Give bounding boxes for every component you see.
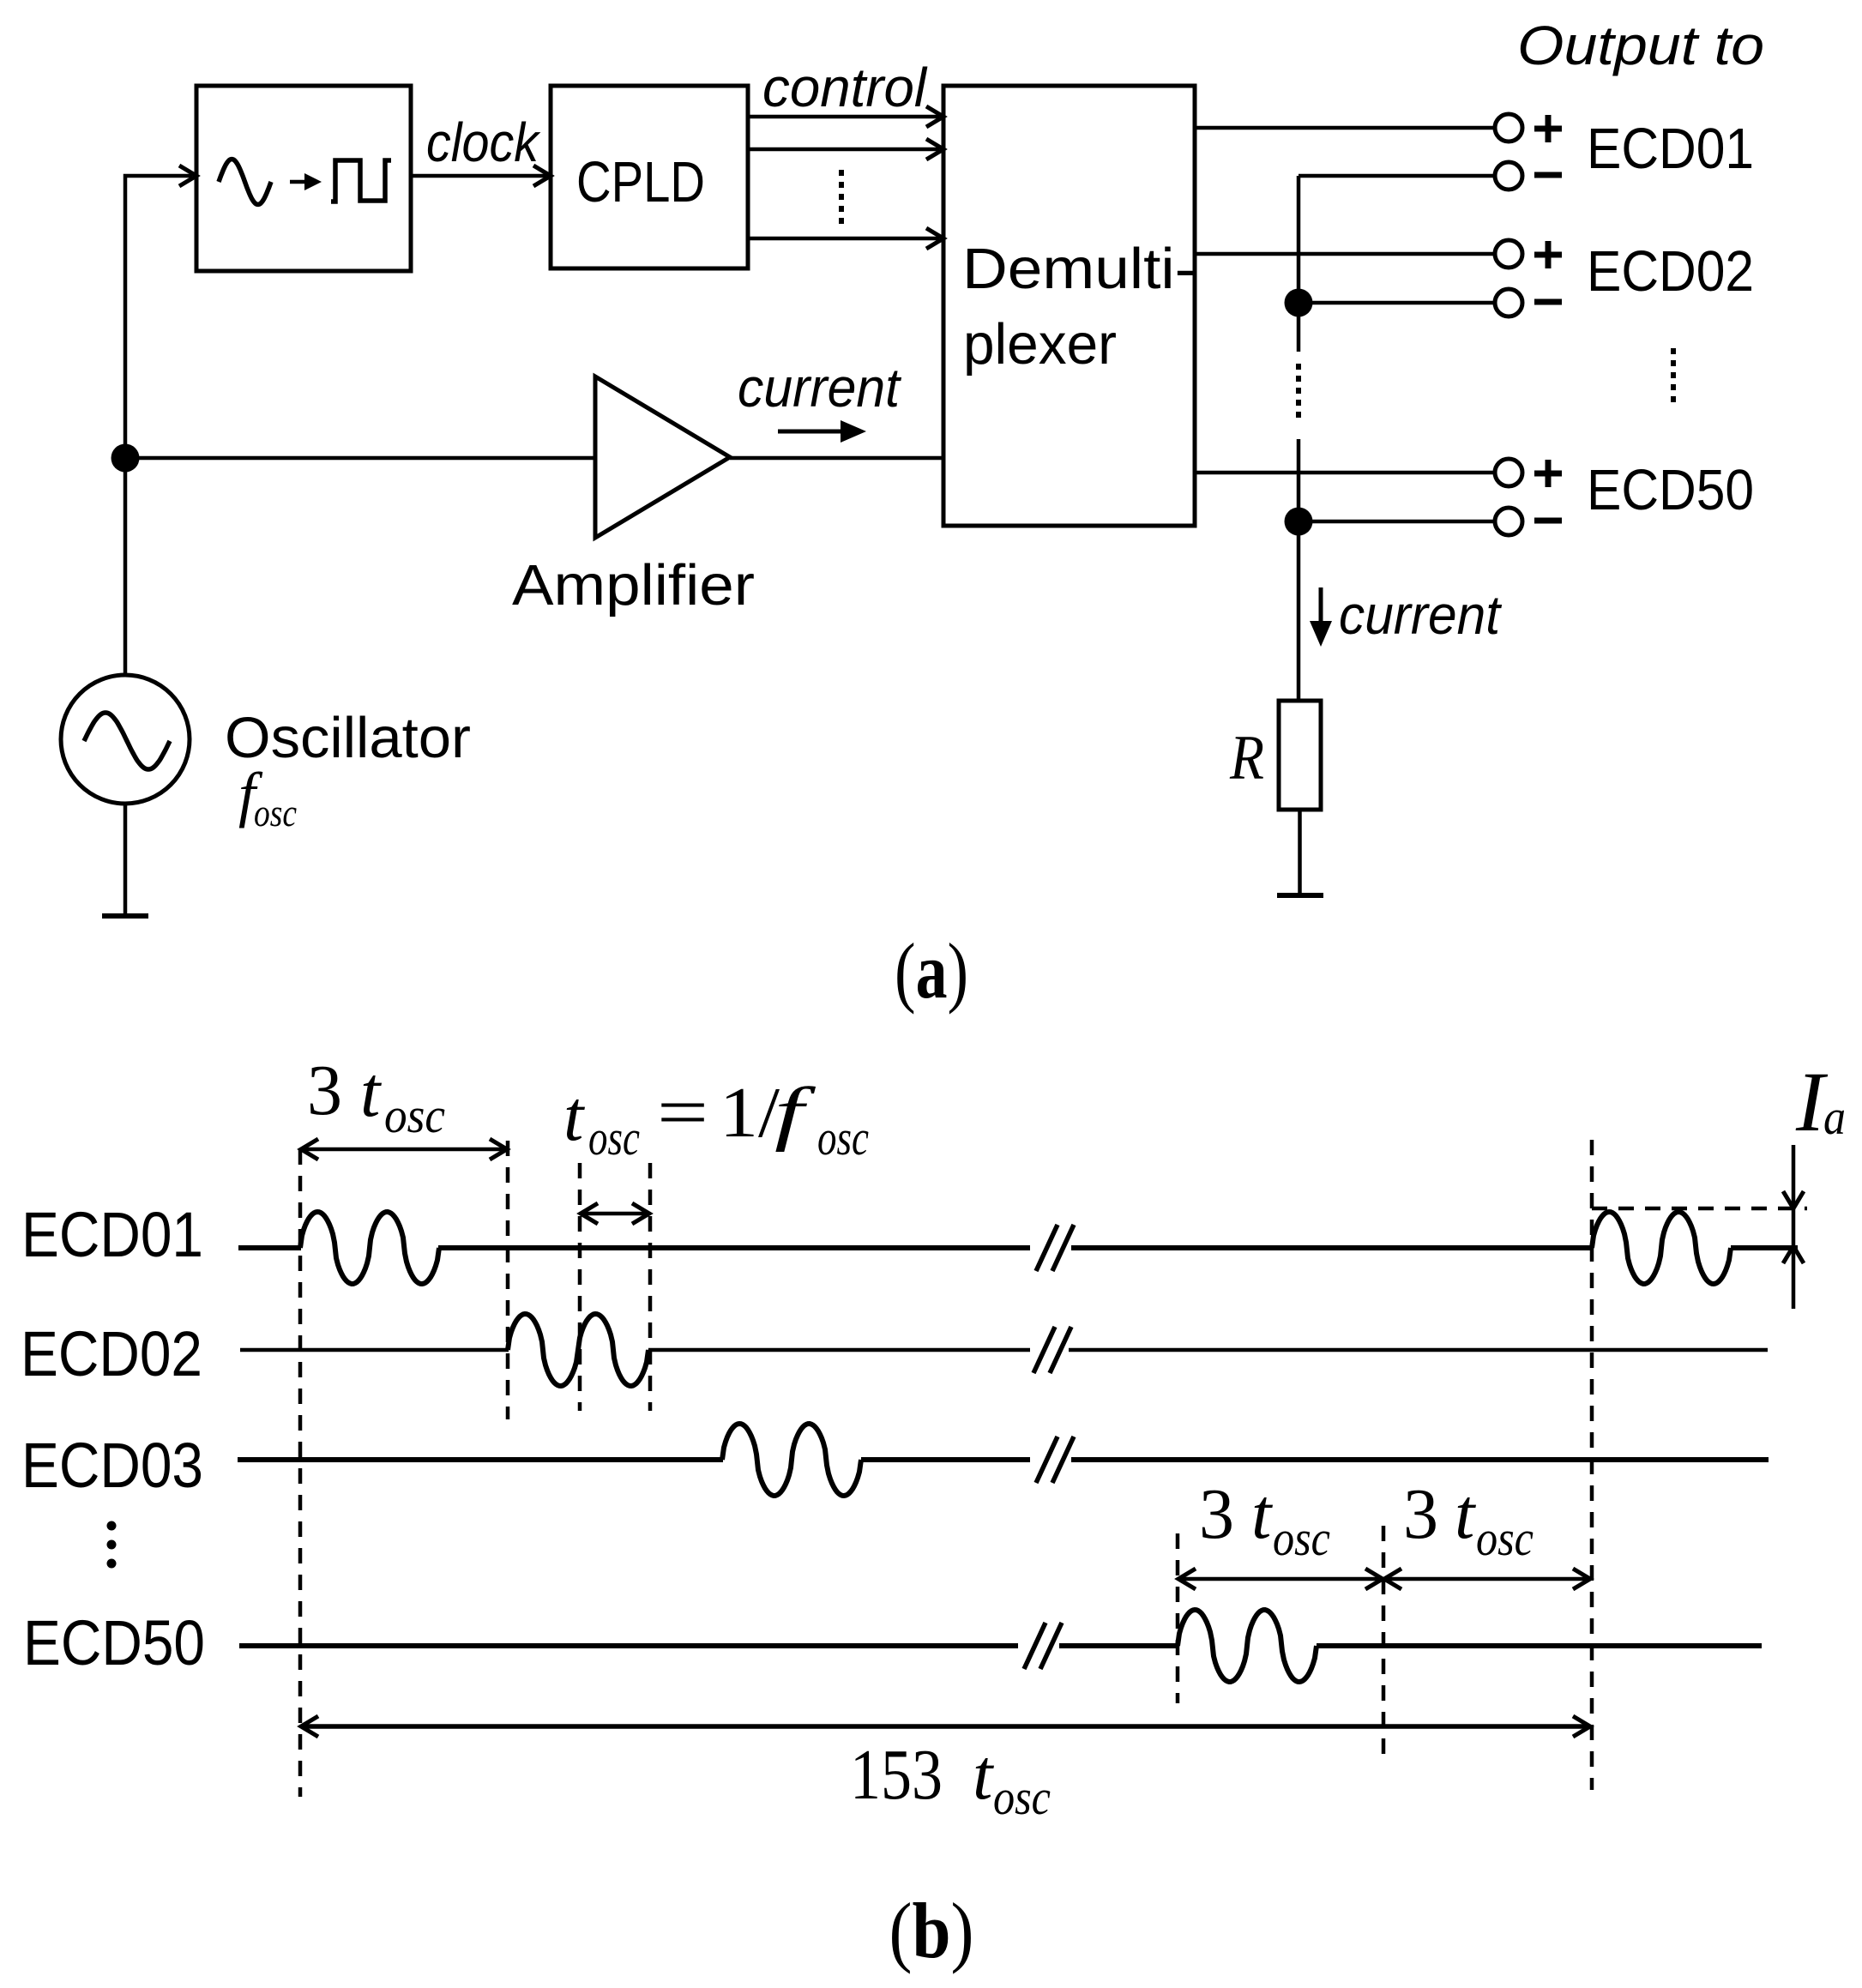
- trace ECD01 baseline (mid): [438, 1245, 1030, 1250]
- terminal circle ECD02 -: [1495, 289, 1522, 316]
- dashed amplitude level line (I_a): [1592, 1207, 1807, 1211]
- wire: clock (converter to CPLD): [411, 166, 551, 186]
- trace ECD03 baseline (left): [238, 1457, 723, 1462]
- break marks ECD50: [1024, 1623, 1062, 1669]
- terminal circle ECD01 -: [1495, 162, 1522, 190]
- trace ECD03 baseline (mid): [861, 1457, 1030, 1462]
- svg-text:1/: 1/: [720, 1073, 780, 1153]
- resistor R: [1279, 701, 1321, 810]
- trace ECD02 baseline (right): [1069, 1348, 1768, 1352]
- wire: node A to amplifier input: [125, 456, 595, 461]
- label CPLD: [576, 150, 705, 214]
- terminal circle ECD50 +: [1495, 459, 1522, 486]
- plus sign ECD02: [1534, 241, 1562, 268]
- terminal circle ECD02 +: [1495, 240, 1522, 268]
- trace ECD50 baseline (left): [239, 1643, 1018, 1648]
- label t_osc = 1/f_osc: [563, 1073, 869, 1166]
- svg-text:plexer: plexer: [963, 312, 1117, 377]
- svg-text:ECD02: ECD02: [21, 1318, 202, 1389]
- svg-text:osc: osc: [1273, 1510, 1330, 1566]
- plus sign ECD01: [1534, 115, 1562, 142]
- svg-text:t: t: [563, 1076, 586, 1156]
- dimension arrow I_a: [1783, 1145, 1804, 1309]
- label f_osc: [238, 760, 297, 834]
- svg-text:Output to: Output to: [1517, 15, 1764, 76]
- ground (below R): [1277, 893, 1323, 898]
- label 3 t_osc (top left): [307, 1051, 445, 1143]
- dotted ellipsis on common return: [1296, 364, 1301, 422]
- label plexer: [963, 312, 1117, 377]
- trace ECD01 baseline (right end): [1731, 1245, 1798, 1250]
- wire: ECD02 - output: [1299, 301, 1495, 305]
- arrow glyph in converter box: [290, 173, 322, 190]
- label ECD50 (schematic): [1587, 458, 1754, 522]
- break marks ECD02: [1033, 1327, 1071, 1373]
- svg-text:3: 3: [1199, 1474, 1234, 1554]
- label current (into R): [1339, 584, 1502, 646]
- dashed guide t-end (x=1856): [1590, 1140, 1594, 1790]
- svg-text:(a): (a): [895, 927, 968, 1015]
- ground (below oscillator): [102, 913, 148, 919]
- wire: ECD02 + output: [1195, 252, 1495, 256]
- trace ECD02 baseline (left): [240, 1348, 509, 1352]
- label clock: [426, 111, 541, 173]
- trace ECD03 sine burst: [722, 1424, 861, 1496]
- wire: common return vertical (upper): [1297, 176, 1301, 352]
- wire: control bus line 1: [748, 106, 943, 127]
- square-wave glyph in converter box: [331, 160, 391, 202]
- node A junction dot (oscillator/amplifier tap): [111, 444, 140, 473]
- terminal circle ECD01 +: [1495, 114, 1522, 142]
- caption (b): [889, 1887, 974, 1974]
- trace ECD50 baseline (mid): [1059, 1643, 1178, 1648]
- break marks ECD03: [1036, 1437, 1074, 1483]
- svg-text:Demulti-: Demulti-: [962, 237, 1196, 301]
- svg-text:osc: osc: [1476, 1510, 1534, 1566]
- trace ECD50 baseline (right): [1317, 1643, 1762, 1648]
- minus sign ECD50: [1534, 518, 1562, 524]
- svg-text:=: =: [657, 1073, 708, 1153]
- trace ECD01 sine burst (left): [300, 1212, 439, 1284]
- label ECD01 (schematic): [1587, 117, 1754, 181]
- trace ECD01 baseline (mid-right): [1071, 1245, 1593, 1250]
- label 3 t_osc (right 2): [1403, 1474, 1534, 1566]
- arrow: current direction (amplifier output): [778, 420, 866, 443]
- svg-text:t: t: [360, 1052, 383, 1132]
- svg-text:Amplifier: Amplifier: [512, 553, 755, 617]
- dimension arrow t_osc: [581, 1203, 649, 1224]
- wire: common return vertical (lower): [1297, 439, 1301, 701]
- dotted ellipsis (outputs, right): [1671, 348, 1676, 405]
- arrow: current into R: [1310, 587, 1332, 647]
- label R: [1229, 723, 1264, 793]
- label Oscillator: [225, 706, 471, 770]
- svg-text:osc: osc: [384, 1087, 445, 1143]
- label I_a: [1795, 1054, 1846, 1149]
- amplifier U1 (triangle): [595, 377, 730, 538]
- wire: amplifier output to demultiplexer: [730, 456, 943, 461]
- oscillator source (circle + sine): [61, 675, 190, 804]
- trace ECD01 sine burst (right): [1592, 1212, 1731, 1284]
- label Amplifier: [512, 553, 755, 617]
- dashed guide t1 (x=592): [506, 1141, 510, 1419]
- label Output to: [1517, 15, 1764, 76]
- dashed guide ECD50 burst start (x=1373): [1176, 1533, 1180, 1703]
- dashed guide t0 (x=350): [298, 1149, 303, 1797]
- svg-text:ECD50: ECD50: [1587, 458, 1754, 522]
- wire: resistor R to ground: [1298, 810, 1302, 895]
- svg-text:current: current: [1339, 584, 1502, 646]
- label ECD02 (schematic): [1587, 239, 1754, 304]
- dashed guide t3 (x=758): [648, 1163, 653, 1411]
- dashed guide t2 (x=676): [578, 1163, 582, 1411]
- minus sign ECD02: [1534, 299, 1562, 305]
- dimension arrow 3 t_osc (right 1): [1178, 1569, 1383, 1589]
- minus sign ECD01: [1534, 172, 1562, 178]
- converter box (sine-to-square): [196, 86, 411, 271]
- trace ECD02 baseline (mid): [648, 1348, 1030, 1352]
- wire: control bus line n: [748, 228, 943, 249]
- wire: ECD01 - output: [1299, 174, 1495, 178]
- wire: ECD50 + output: [1195, 471, 1495, 475]
- CPLD box: [551, 86, 748, 268]
- svg-text:3: 3: [1403, 1474, 1438, 1554]
- label current (amplifier output): [738, 357, 901, 419]
- svg-text:ECD02: ECD02: [1587, 239, 1754, 304]
- svg-text:current: current: [738, 357, 901, 419]
- svg-text:osc: osc: [817, 1110, 869, 1166]
- label ECD01 (timing): [21, 1199, 203, 1270]
- svg-text:osc: osc: [588, 1110, 640, 1166]
- svg-text:ECD01: ECD01: [1587, 117, 1754, 181]
- wire: ECD50 - output: [1299, 520, 1495, 524]
- demultiplexer box: [943, 86, 1195, 526]
- dimension arrow 153 t_osc: [301, 1716, 1590, 1737]
- terminal circle ECD50 -: [1495, 508, 1522, 535]
- trace ECD02 sine burst: [508, 1314, 648, 1386]
- svg-text:t: t: [1455, 1474, 1477, 1554]
- svg-text:t: t: [1251, 1474, 1274, 1554]
- svg-text:clock: clock: [426, 111, 541, 173]
- node: ECD02 - junction dot: [1285, 289, 1313, 317]
- dashed guide ECD50 burst +3tosc (x=1613): [1382, 1526, 1386, 1765]
- svg-text:Oscillator: Oscillator: [225, 706, 471, 770]
- label control: [762, 57, 928, 118]
- svg-text:osc: osc: [993, 1769, 1051, 1825]
- label 3 t_osc (right 1): [1199, 1474, 1330, 1566]
- label ECD50 (timing): [23, 1607, 205, 1678]
- wire: ECD01 + output: [1195, 126, 1495, 130]
- svg-text:R: R: [1229, 723, 1264, 793]
- trace ECD01 baseline (left): [238, 1245, 301, 1250]
- wire: oscillator to ground: [124, 804, 128, 916]
- svg-text:osc: osc: [254, 791, 297, 834]
- plus sign ECD50: [1534, 460, 1562, 487]
- trace ECD50 sine burst: [1178, 1610, 1317, 1682]
- svg-text:CPLD: CPLD: [576, 150, 705, 214]
- svg-text:(b): (b): [889, 1887, 974, 1974]
- node: ECD50 - junction dot: [1285, 508, 1313, 536]
- dimension arrow 3 t_osc (top): [301, 1139, 507, 1160]
- label ECD03 (timing): [21, 1430, 203, 1501]
- label ECD02 (timing): [21, 1318, 202, 1389]
- svg-text:ECD50: ECD50: [23, 1607, 205, 1678]
- label Demulti-: [962, 237, 1196, 301]
- svg-text:ECD03: ECD03: [21, 1430, 203, 1501]
- svg-text:ECD01: ECD01: [21, 1199, 203, 1270]
- svg-text:a: a: [1823, 1089, 1846, 1145]
- dotted ellipsis on control bus: [839, 170, 844, 230]
- break marks ECD01: [1036, 1225, 1074, 1271]
- caption (a): [895, 927, 968, 1015]
- wire: control bus line 2: [748, 139, 943, 160]
- label 153 t_osc: [850, 1735, 1051, 1825]
- svg-text:3: 3: [307, 1051, 342, 1130]
- trace ECD03 baseline (right): [1071, 1457, 1769, 1462]
- dimension arrow 3 t_osc (right 2): [1384, 1569, 1590, 1589]
- svg-text:control: control: [762, 57, 928, 118]
- vertical ellipsis (timing labels): [107, 1521, 117, 1569]
- wire: oscillator to converter elbow: [125, 166, 196, 675]
- svg-text:t: t: [973, 1735, 995, 1815]
- sine glyph in converter box: [219, 160, 271, 205]
- svg-text:153: 153: [850, 1735, 943, 1815]
